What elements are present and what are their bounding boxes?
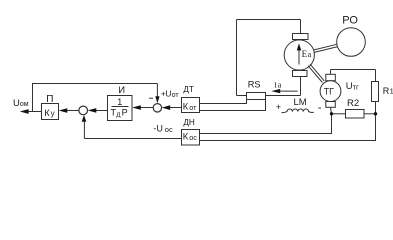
motor M armature circle — [284, 40, 314, 70]
brush bottom of motor — [293, 71, 308, 77]
svg-text:К: К — [183, 131, 189, 141]
resistor R1 — [372, 82, 379, 102]
svg-text:д: д — [116, 111, 120, 118]
brush bottom of tachogenerator — [326, 102, 336, 108]
svg-text:К: К — [183, 102, 189, 112]
svg-text:R2: R2 — [347, 98, 359, 109]
svg-text:ом: ом — [20, 101, 29, 108]
wire Kot sense lower to shunt RS — [200, 100, 266, 111]
label +Uot — [161, 89, 179, 100]
arrowhead Uot into node 2 — [162, 105, 171, 110]
svg-text:от: от — [172, 92, 180, 99]
wire armature top run — [237, 19, 301, 21]
label Uom — [13, 98, 29, 109]
svg-text:RS: RS — [248, 80, 261, 90]
wire Uom output from Ky box to left arrow — [24, 111, 42, 113]
wire speed feedback vertical — [83, 121, 85, 139]
svg-text:РО: РО — [342, 14, 358, 26]
arrowhead minus feedback into summing node 2 — [155, 96, 159, 103]
svg-text:от: от — [189, 103, 197, 112]
svg-text:у: у — [51, 109, 55, 118]
wire armature right segment RS to motor — [266, 95, 301, 97]
wire Kot sense upper to shunt RS — [200, 100, 247, 104]
wire Utg top run — [331, 69, 376, 71]
label minus terminal — [318, 107, 321, 109]
svg-text:ДТ: ДТ — [183, 85, 194, 94]
annotation arrow Ia current direction — [277, 90, 298, 92]
arrowhead into integrator — [132, 105, 141, 110]
block Kos (speed feedback gain) — [182, 130, 200, 146]
wire motor bottom brush lead — [300, 77, 302, 96]
brush top of tachogenerator — [326, 74, 336, 80]
label Ia — [274, 81, 281, 90]
inductor LM smoothing reactor — [282, 109, 314, 113]
svg-text:тг: тг — [353, 83, 359, 92]
wire summing node 2 to integrator input — [140, 107, 154, 109]
svg-text:ос: ос — [189, 133, 197, 142]
shaft motor to TG (double line) — [308, 66, 322, 83]
tachogenerator TG circle — [320, 81, 341, 102]
wire feedback drop to summing node 2 — [156, 84, 158, 100]
label plus terminal — [276, 102, 281, 112]
summing node 1 (speed loop) — [79, 106, 88, 115]
svg-text:LM: LM — [294, 97, 307, 108]
wire Kot output to summing node 2 — [169, 107, 182, 109]
arrowhead Uom output — [20, 109, 29, 114]
summing node 2 (current loop) — [153, 104, 161, 112]
brush top of motor — [293, 34, 309, 40]
svg-text:ТГ: ТГ — [324, 87, 334, 97]
wire drop to motor top brush — [300, 20, 302, 34]
wire armature left segment into RS — [237, 95, 247, 97]
wire R2 to tap B — [364, 113, 376, 115]
svg-text:+: + — [276, 102, 281, 112]
machine PO circle — [337, 28, 366, 57]
svg-text:a: a — [278, 81, 282, 90]
svg-text:-U: -U — [153, 123, 163, 133]
wire tap A to R2 — [332, 113, 346, 115]
wire speed feedback horizontal from Kos — [84, 138, 181, 140]
wire R1 bottom to tap B — [375, 102, 377, 116]
wire TG bottom brush to tap A — [331, 107, 332, 114]
arrowhead speed feedback into summing node 1 — [82, 115, 87, 122]
label R1 — [383, 86, 393, 96]
svg-text:a: a — [308, 50, 312, 59]
block Ky (amplifier) — [42, 104, 59, 120]
wire drop to R1 — [375, 70, 377, 82]
wire Kos sense lower to divider tap B — [200, 115, 376, 141]
resistor R2 — [346, 110, 365, 119]
svg-text:1: 1 — [117, 97, 122, 107]
svg-text:И: И — [118, 85, 125, 96]
svg-text:Р: Р — [122, 108, 128, 118]
label minus sign at node 2 — [149, 97, 153, 99]
node: feedback tap on Uom line — [32, 84, 34, 112]
wire armature riser left — [236, 20, 238, 96]
junction tap A — [330, 112, 333, 115]
svg-text:К: К — [44, 108, 50, 118]
wire TG top brush to Utg line — [330, 70, 332, 75]
junction tap B — [374, 112, 377, 115]
arrowhead integrator output into node 1 — [88, 108, 97, 113]
svg-text:ДН: ДН — [183, 118, 195, 127]
svg-text:ос: ос — [165, 125, 173, 134]
arrow Ea inside motor — [298, 49, 300, 65]
wire top feedback line — [32, 83, 157, 85]
label Utg — [346, 81, 359, 92]
wire summing node 1 to Ky box — [66, 110, 79, 112]
block integrator 1/TdP — [108, 96, 133, 121]
shaft motor to PO (double line) — [314, 44, 338, 50]
wire Kos sense upper to divider tap A — [200, 115, 332, 134]
wire integrator output to summing node 1 — [96, 110, 108, 112]
block Kot (current sensor gain) — [182, 98, 200, 113]
svg-text:1: 1 — [390, 87, 393, 96]
label -Uos — [153, 123, 173, 134]
arrowhead into Ky box — [59, 108, 68, 113]
resistor RS shunt — [247, 93, 266, 100]
